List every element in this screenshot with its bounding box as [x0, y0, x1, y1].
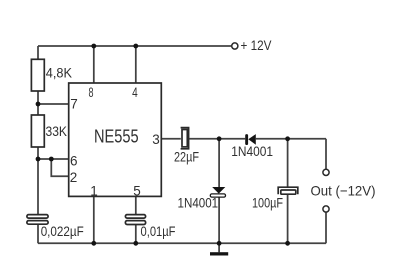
- diode D2 triangle: [212, 187, 225, 194]
- wire: pin 6: [38, 158, 69, 160]
- junction node: D2/ground on bottom rail: [217, 241, 222, 246]
- wire: pin 8: [93, 46, 95, 83]
- svg-text:6: 6: [70, 154, 78, 169]
- terminal: Out upper: [323, 169, 329, 175]
- resistor R2 33K: [31, 115, 44, 147]
- svg-text:8: 8: [89, 85, 94, 100]
- svg-text:100µF: 100µF: [252, 195, 283, 211]
- svg-text:33K: 33K: [46, 123, 68, 139]
- ground bar: [210, 252, 228, 255]
- junction node: pin6 / divider: [36, 157, 41, 162]
- wire: node A to D1: [219, 138, 245, 140]
- svg-text:2: 2: [70, 170, 78, 185]
- wire: C3 to bottom rail: [135, 225, 137, 244]
- wire: left column stub rail to R1: [37, 46, 39, 59]
- svg-text:7: 7: [70, 97, 78, 112]
- junction node: pin7 / divider: [36, 102, 41, 107]
- diode D1 cathode bar: [245, 134, 248, 145]
- wire: pin 5 to C3: [135, 196, 137, 214]
- svg-text:0,01µF: 0,01µF: [141, 223, 176, 239]
- wire: Out- terminal to bottom rail: [325, 212, 327, 243]
- capacitor C2 22uF bracket plate: [181, 128, 189, 149]
- wire: pin 4: [135, 46, 137, 83]
- svg-text:+ 12V: + 12V: [241, 37, 273, 53]
- wire: C4 to bottom rail: [287, 195, 289, 244]
- capacitor C4 100uF bracket plate: [278, 187, 298, 194]
- wire: C2 to node A: [189, 138, 219, 140]
- op-amp U1 NE555 body: [69, 83, 162, 196]
- wire: ground stub: [218, 243, 220, 252]
- svg-text:1: 1: [90, 183, 98, 198]
- junction node: pin8 on +12V rail: [91, 44, 96, 49]
- wire: node B down to C4: [287, 139, 289, 187]
- wire: D1 to node B: [256, 138, 288, 140]
- junction node: pin1 on bottom rail: [91, 241, 96, 246]
- wire: pin 3: [161, 138, 181, 140]
- diode D1 triangle: [248, 134, 256, 145]
- capacitor C3 0,01uF plate 1: [125, 215, 145, 219]
- wire: node A down to D2: [218, 139, 220, 187]
- wire: out corner down to Out+ terminal: [325, 139, 327, 170]
- junction node: C4 on bottom rail: [285, 241, 290, 246]
- svg-text:NE555: NE555: [94, 127, 139, 147]
- junction node: pin2 tap: [49, 157, 54, 162]
- terminal: Out lower: [323, 206, 329, 212]
- svg-text:Out (−12V): Out (−12V): [311, 182, 376, 198]
- capacitor C1 0,022uF plate 2: [27, 221, 48, 225]
- junction node A: pin3 net: [217, 136, 222, 141]
- wire: R2 bottom to pin6 node: [37, 147, 39, 159]
- wire: D2 to bottom rail: [218, 197, 220, 243]
- wire: pin6 node down to C1: [37, 159, 39, 215]
- wire: pin7 node to R2: [37, 104, 39, 115]
- wire: pin 1: [93, 196, 95, 243]
- junction node B: output net: [285, 136, 290, 141]
- capacitor C1 0,022uF plate 1: [27, 215, 48, 219]
- wire: pin 7: [38, 103, 69, 105]
- svg-text:4,8K: 4,8K: [46, 65, 73, 81]
- wire: +12V top rail: [38, 45, 231, 47]
- svg-text:1N4001: 1N4001: [231, 143, 273, 159]
- junction node: pin4 on +12V rail: [133, 44, 138, 49]
- svg-text:5: 5: [133, 183, 141, 198]
- capacitor C4 100uF box plate: [281, 190, 296, 194]
- svg-text:1N4001: 1N4001: [178, 195, 219, 211]
- capacitor C2 22uF box plate: [182, 130, 187, 147]
- capacitor C3 0,01uF plate 2: [125, 221, 145, 225]
- svg-text:4: 4: [132, 85, 138, 100]
- terminal: +12V: [232, 43, 238, 49]
- svg-text:22µF: 22µF: [174, 148, 199, 164]
- svg-text:3: 3: [152, 132, 160, 147]
- resistor R1 4,8K: [31, 59, 44, 91]
- wire: R1 bottom to pin7 node: [37, 91, 39, 104]
- diode D2 cathode bar: [210, 194, 225, 197]
- wire: node B to out corner: [288, 138, 326, 140]
- wire: bottom rail: [38, 242, 326, 244]
- svg-text:0,022µF: 0,022µF: [41, 223, 84, 239]
- junction node: C3 on bottom rail: [133, 241, 138, 246]
- wire: pin 2 jog: [51, 159, 68, 176]
- wire: C1 to bottom rail: [37, 224, 39, 243]
